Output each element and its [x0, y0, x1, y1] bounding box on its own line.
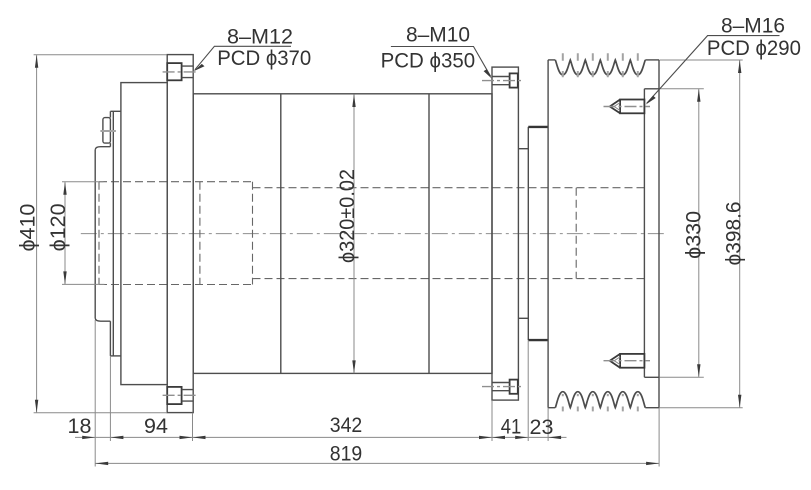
svg-text:ϕ410: ϕ410 — [15, 204, 39, 252]
right housing phi398.6 — [548, 60, 659, 408]
arrows 18 — [82, 436, 95, 439]
bolt M12 bottom — [163, 387, 196, 404]
arrows 41 — [492, 436, 505, 439]
bolt M10 bottom — [482, 380, 522, 394]
centerline main axis — [81, 233, 668, 235]
svg-text:342: 342 — [330, 413, 363, 437]
arrows 342 — [193, 436, 206, 439]
dimension phi320 — [336, 94, 359, 373]
bottom dimension line 18/94/342/41/23 — [75, 436, 567, 438]
svg-text:18: 18 — [68, 414, 92, 438]
left mid section (94) — [121, 83, 167, 385]
end cap screw top — [103, 118, 111, 144]
svg-text:PCD ϕ290: PCD ϕ290 — [707, 36, 801, 60]
coil wave bottom — [555, 392, 645, 408]
dimension phi410 — [15, 55, 167, 413]
svg-text:ϕ330: ϕ330 — [681, 211, 705, 259]
svg-text:41: 41 — [501, 415, 522, 439]
step section B thick edges — [528, 126, 548, 128]
coil wave top — [555, 60, 645, 75]
label 8-M16 leader — [646, 13, 801, 104]
end cap left profile — [95, 111, 121, 356]
bolt M12 top — [163, 63, 196, 80]
flange phi410 — [167, 55, 193, 413]
step section A — [518, 127, 528, 340]
svg-text:ϕ398.6: ϕ398.6 — [721, 201, 745, 265]
svg-text:8–M10: 8–M10 — [406, 23, 470, 47]
svg-text:ϕ320±0.02: ϕ320±0.02 — [336, 169, 359, 263]
svg-text:PCD ϕ350: PCD ϕ350 — [381, 48, 476, 72]
flange2 M10 — [492, 67, 518, 400]
label 8-M12 leader — [194, 25, 312, 72]
arrows 94 — [180, 436, 193, 439]
hidden bore left dashed — [99, 182, 253, 285]
main body phi320 — [193, 94, 492, 374]
label 8-M10 leader — [381, 23, 492, 79]
coil center marks top — [563, 53, 638, 77]
dimension 819 — [95, 462, 659, 464]
hidden bore right dashed — [253, 188, 645, 279]
svg-text:ϕ120: ϕ120 — [46, 203, 70, 251]
svg-text:819: 819 — [330, 441, 363, 465]
coil center marks bottom — [563, 394, 638, 411]
svg-text:94: 94 — [144, 414, 168, 438]
dimension phi330 — [660, 89, 706, 377]
dimension phi398.6 — [660, 60, 746, 408]
svg-text:23: 23 — [530, 415, 554, 439]
dimension phi120 — [46, 182, 105, 285]
bolt M16 bottom — [604, 354, 651, 368]
arrows 23 — [548, 436, 561, 439]
bolt M16 top — [604, 100, 651, 114]
svg-text:PCD ϕ370: PCD ϕ370 — [217, 46, 311, 70]
svg-text:8–M16: 8–M16 — [721, 13, 785, 37]
bottom extension lines — [95, 320, 659, 467]
bolt M10 top — [482, 73, 522, 87]
